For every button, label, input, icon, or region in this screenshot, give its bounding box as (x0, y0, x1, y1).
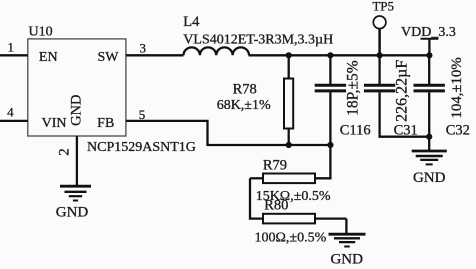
op-amp U10 regulator body (28, 39, 126, 136)
wire pin 5 FB (126, 121, 331, 145)
node junction C32 bottom (426, 134, 432, 140)
capacitor C31 (378, 55, 380, 84)
svg-text:C31: C31 (394, 122, 418, 138)
svg-text:3: 3 (139, 40, 146, 55)
svg-text:4: 4 (7, 105, 14, 120)
svg-text:L4: L4 (183, 14, 200, 30)
svg-text:2: 2 (57, 148, 73, 156)
wire VDD rail (249, 54, 430, 56)
svg-text:R79: R79 (263, 157, 287, 173)
svg-text:GND: GND (68, 94, 84, 125)
node junction R78 bottom (286, 142, 292, 148)
svg-text:VDD_3.3: VDD_3.3 (401, 25, 456, 40)
resistor R78 (288, 55, 290, 78)
node junction TP5 rail (377, 52, 383, 58)
svg-text:1: 1 (7, 40, 14, 55)
node junction VDD rail (426, 52, 432, 58)
svg-text:TP5: TP5 (372, 0, 394, 13)
svg-text:68K,±1%: 68K,±1% (217, 98, 271, 113)
svg-text:C116: C116 (340, 122, 371, 138)
node junction R78 top (286, 52, 292, 58)
svg-text:GND: GND (330, 251, 363, 267)
wire C116 bottom to R79 (315, 145, 330, 178)
inductor L4 (184, 47, 250, 55)
svg-text:VLS4012ET-3R3M,3.3µH: VLS4012ET-3R3M,3.3µH (183, 33, 333, 48)
resistor R79 (263, 174, 315, 184)
ground symbol under R80 (329, 234, 366, 246)
test point TP5 (373, 16, 386, 29)
svg-text:FB: FB (97, 116, 114, 131)
node junction C116 top (327, 52, 333, 58)
svg-text:5: 5 (139, 107, 146, 122)
resistor R80 (263, 214, 315, 224)
svg-text:SW: SW (98, 50, 120, 65)
svg-text:C32: C32 (446, 122, 470, 138)
wire TP5 to rail (378, 29, 381, 56)
ground symbol under U10 (60, 186, 91, 200)
svg-text:GND: GND (56, 205, 89, 221)
wire pin 4 VIN (0, 120, 28, 122)
svg-text:226,22µF: 226,22µF (394, 60, 411, 122)
svg-text:U10: U10 (29, 25, 53, 40)
svg-text:R78: R78 (233, 81, 257, 97)
wire pin 2 GND (76, 136, 78, 186)
svg-text:VIN: VIN (42, 116, 67, 131)
svg-text:18P,±5%: 18P,±5% (345, 60, 362, 116)
node junction C116 bottom (327, 142, 333, 148)
wire pin 1 EN (0, 54, 28, 56)
capacitor C116 (329, 55, 331, 84)
svg-text:R80: R80 (264, 198, 288, 214)
wire pin 3 SW to inductor (126, 54, 184, 56)
capacitor C32 (428, 55, 430, 84)
svg-text:NCP1529ASNT1G: NCP1529ASNT1G (87, 140, 196, 155)
svg-text:100Ω,±0.5%: 100Ω,±0.5% (255, 231, 327, 246)
svg-text:104,±10%: 104,±10% (449, 57, 465, 118)
wire R79 left to R80 left (250, 178, 263, 218)
svg-text:GND: GND (413, 170, 446, 186)
ground symbol under C31 C32 (412, 151, 447, 164)
svg-text:EN: EN (39, 50, 58, 65)
